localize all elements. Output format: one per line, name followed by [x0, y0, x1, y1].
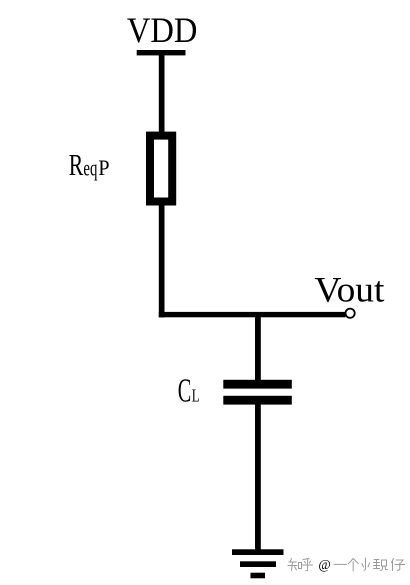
svg-text:@: @ [318, 557, 330, 572]
svg-text:Vout: Vout [314, 270, 384, 310]
svg-text:P: P [98, 155, 109, 180]
svg-text:C: C [178, 372, 192, 409]
svg-text:VDD: VDD [127, 10, 197, 50]
svg-text:L: L [192, 386, 200, 406]
svg-text:R: R [69, 147, 84, 182]
svg-text:eq: eq [83, 156, 97, 181]
